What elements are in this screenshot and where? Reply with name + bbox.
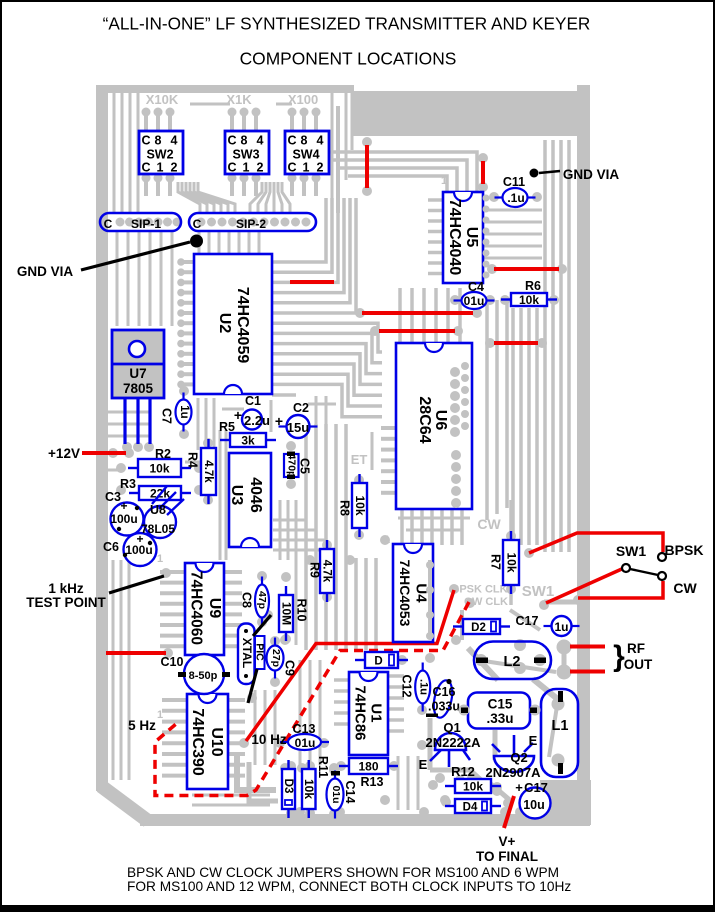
- svg-text:7805: 7805: [123, 381, 154, 396]
- svg-text:C6: C6: [103, 540, 119, 554]
- svg-text:1: 1: [384, 534, 390, 546]
- svg-text:L1: L1: [552, 718, 569, 734]
- svg-text:C2: C2: [293, 401, 309, 415]
- svg-text:C16: C16: [433, 685, 456, 699]
- svg-text:SW1: SW1: [616, 543, 647, 559]
- svg-text:4046: 4046: [247, 477, 264, 513]
- svg-text:L2: L2: [504, 654, 521, 670]
- svg-text:2N2907A: 2N2907A: [486, 765, 542, 780]
- svg-text:XTAL: XTAL: [240, 638, 254, 668]
- svg-text:BPSK: BPSK: [665, 542, 704, 558]
- svg-text:1: 1: [157, 709, 163, 721]
- svg-text:C: C: [227, 161, 236, 175]
- svg-text:U4: U4: [413, 583, 430, 603]
- svg-text:R9: R9: [307, 562, 321, 578]
- svg-text:OUT: OUT: [624, 657, 653, 672]
- svg-text:D4: D4: [463, 802, 478, 814]
- svg-text:8: 8: [241, 134, 248, 148]
- svg-text:COMPONENT LOCATIONS: COMPONENT LOCATIONS: [240, 49, 457, 69]
- svg-text:C11: C11: [503, 175, 525, 189]
- svg-text:U2: U2: [216, 313, 233, 334]
- svg-text:C12: C12: [399, 675, 413, 698]
- svg-text:X100: X100: [288, 92, 318, 107]
- svg-text:4: 4: [317, 134, 324, 148]
- svg-text:CW: CW: [477, 516, 501, 532]
- svg-text:78L05: 78L05: [141, 522, 175, 536]
- svg-text:2N2222A: 2N2222A: [426, 735, 482, 750]
- svg-text:C: C: [287, 161, 296, 175]
- svg-text:1 kHz: 1 kHz: [48, 581, 84, 596]
- svg-text:4.7k: 4.7k: [321, 560, 333, 583]
- svg-text:C17: C17: [516, 614, 539, 628]
- svg-text:Q1: Q1: [443, 720, 460, 735]
- svg-text:.33u: .33u: [486, 711, 513, 726]
- svg-text:V+: V+: [499, 834, 516, 849]
- svg-text:C: C: [141, 134, 150, 148]
- svg-text:SW2: SW2: [146, 148, 173, 162]
- svg-text:+: +: [120, 499, 127, 513]
- svg-text:4: 4: [171, 134, 178, 148]
- svg-text:1: 1: [157, 553, 163, 565]
- svg-text:D: D: [374, 656, 382, 668]
- svg-text:180: 180: [358, 760, 378, 774]
- svg-text:R5: R5: [219, 420, 235, 434]
- svg-text:R11: R11: [316, 756, 330, 778]
- svg-text:.1u: .1u: [417, 679, 429, 695]
- svg-text:1: 1: [303, 161, 310, 175]
- svg-text:C1: C1: [245, 394, 261, 408]
- svg-text:SIP-2: SIP-2: [236, 217, 266, 231]
- svg-text:“ALL-IN-ONE” LF SYNTHESIZED TR: “ALL-IN-ONE” LF SYNTHESIZED TRANSMITTER …: [103, 14, 591, 34]
- svg-text:74HC4059: 74HC4059: [234, 287, 251, 364]
- svg-text:R12: R12: [451, 764, 475, 779]
- svg-text:C: C: [227, 134, 236, 148]
- svg-text:SW1: SW1: [522, 583, 555, 600]
- svg-text:SIP-1: SIP-1: [131, 217, 161, 231]
- svg-text:1: 1: [157, 161, 164, 175]
- svg-text:SW4: SW4: [292, 148, 319, 162]
- svg-text:U5: U5: [463, 227, 480, 248]
- svg-text:ET: ET: [351, 452, 368, 467]
- svg-text:E: E: [419, 757, 428, 772]
- svg-text:15u: 15u: [287, 420, 309, 435]
- svg-text:R4: R4: [185, 452, 199, 468]
- svg-text:X10K: X10K: [146, 92, 179, 107]
- svg-text:100u: 100u: [125, 543, 152, 557]
- svg-text:PIC: PIC: [253, 643, 265, 661]
- svg-text:U9: U9: [206, 598, 223, 619]
- svg-text:74HC86: 74HC86: [352, 685, 369, 740]
- svg-text:U1: U1: [368, 703, 385, 722]
- svg-text:28C64: 28C64: [416, 396, 433, 443]
- svg-text:470p: 470p: [285, 454, 297, 478]
- svg-text:4.7k: 4.7k: [202, 460, 214, 483]
- svg-text:C9: C9: [282, 660, 296, 676]
- svg-text:U8: U8: [150, 503, 166, 517]
- svg-text:01u: 01u: [330, 785, 342, 803]
- svg-text:.1u: .1u: [507, 191, 524, 205]
- svg-text:U7: U7: [129, 366, 146, 381]
- svg-text:U10: U10: [208, 727, 225, 756]
- svg-text:01u: 01u: [464, 294, 485, 308]
- svg-text:R13: R13: [361, 775, 384, 789]
- svg-text:74HC4040: 74HC4040: [446, 199, 463, 276]
- svg-text:27p: 27p: [270, 649, 282, 667]
- svg-text:10k: 10k: [353, 495, 367, 515]
- svg-text:R10: R10: [294, 599, 308, 622]
- svg-text:R2: R2: [155, 447, 171, 461]
- svg-text:10u: 10u: [523, 798, 545, 812]
- svg-text:2: 2: [317, 161, 324, 175]
- svg-text:+: +: [234, 407, 242, 423]
- svg-text:C10: C10: [161, 655, 184, 669]
- svg-text:8: 8: [301, 134, 308, 148]
- svg-text:1u: 1u: [178, 405, 190, 418]
- svg-text:C: C: [141, 161, 150, 175]
- svg-text:01u: 01u: [295, 736, 316, 750]
- svg-text:R7: R7: [488, 554, 502, 570]
- svg-text:GND VIA: GND VIA: [563, 167, 620, 182]
- svg-text:C15: C15: [488, 697, 513, 712]
- svg-text:C: C: [104, 217, 113, 231]
- svg-text:10k: 10k: [504, 552, 518, 572]
- svg-text:E: E: [529, 733, 538, 748]
- svg-text:C7: C7: [159, 408, 173, 424]
- svg-text:U3: U3: [228, 485, 245, 506]
- svg-text:10 Hz: 10 Hz: [251, 732, 287, 747]
- svg-text:C: C: [287, 134, 296, 148]
- svg-text:TO FINAL: TO FINAL: [476, 849, 538, 864]
- svg-text:BPSK CLK: BPSK CLK: [451, 584, 507, 596]
- svg-text:74HC4053: 74HC4053: [397, 560, 413, 627]
- svg-text:10M: 10M: [279, 602, 293, 625]
- svg-text:10k: 10k: [302, 779, 316, 799]
- svg-text:BPSK AND CW CLOCK JUMPERS SHOW: BPSK AND CW CLOCK JUMPERS SHOWN FOR MS10…: [127, 865, 559, 880]
- svg-text:C14: C14: [343, 781, 357, 804]
- svg-text:D3: D3: [282, 779, 294, 794]
- svg-text:FOR MS100 AND 12 WPM, CONNECT: FOR MS100 AND 12 WPM, CONNECT BOTH CLOCK…: [127, 879, 571, 894]
- svg-text:10k: 10k: [463, 780, 483, 794]
- svg-text:1: 1: [441, 175, 447, 187]
- svg-text:C: C: [193, 217, 202, 231]
- svg-text:+12V: +12V: [48, 446, 80, 461]
- svg-text:100u: 100u: [110, 512, 137, 526]
- svg-text:3k: 3k: [241, 434, 255, 448]
- svg-text:2.2u: 2.2u: [244, 413, 270, 428]
- svg-text:TEST POINT: TEST POINT: [26, 595, 106, 610]
- svg-text:GND VIA: GND VIA: [17, 264, 74, 279]
- svg-text:10k: 10k: [519, 293, 539, 307]
- svg-text:C3: C3: [105, 490, 121, 504]
- svg-text:CW CLK: CW CLK: [464, 596, 508, 608]
- svg-text:CW: CW: [673, 580, 697, 596]
- svg-text:74HC4060: 74HC4060: [187, 571, 204, 645]
- svg-text:8: 8: [155, 134, 162, 148]
- svg-text:+: +: [515, 780, 523, 795]
- svg-text:U6: U6: [432, 410, 449, 431]
- svg-text:+: +: [275, 413, 283, 429]
- svg-text:C8: C8: [239, 592, 253, 608]
- svg-text:D2: D2: [471, 622, 486, 634]
- svg-text:.033u: .033u: [428, 700, 460, 714]
- svg-text:1: 1: [243, 161, 250, 175]
- svg-text:74HC390: 74HC390: [189, 708, 206, 776]
- svg-text:2: 2: [257, 161, 264, 175]
- svg-text:SW3: SW3: [232, 148, 259, 162]
- svg-text:R3: R3: [120, 477, 136, 491]
- svg-text:2: 2: [171, 161, 178, 175]
- svg-text:R8: R8: [337, 500, 351, 516]
- svg-text:4: 4: [257, 134, 264, 148]
- svg-text:RF: RF: [627, 641, 645, 656]
- svg-text:R6: R6: [525, 279, 541, 293]
- svg-text:C4: C4: [468, 280, 484, 294]
- svg-text:C5: C5: [297, 458, 311, 474]
- svg-text:8-50p: 8-50p: [189, 670, 218, 682]
- svg-text:47p: 47p: [256, 591, 268, 609]
- svg-text:X1K: X1K: [226, 92, 252, 107]
- svg-text:10k: 10k: [149, 462, 169, 476]
- svg-text:C13: C13: [293, 722, 316, 736]
- svg-text:C17: C17: [524, 780, 548, 795]
- svg-text:1u: 1u: [554, 620, 568, 634]
- svg-text:5 Hz: 5 Hz: [128, 718, 156, 733]
- svg-text:Q2: Q2: [510, 750, 527, 765]
